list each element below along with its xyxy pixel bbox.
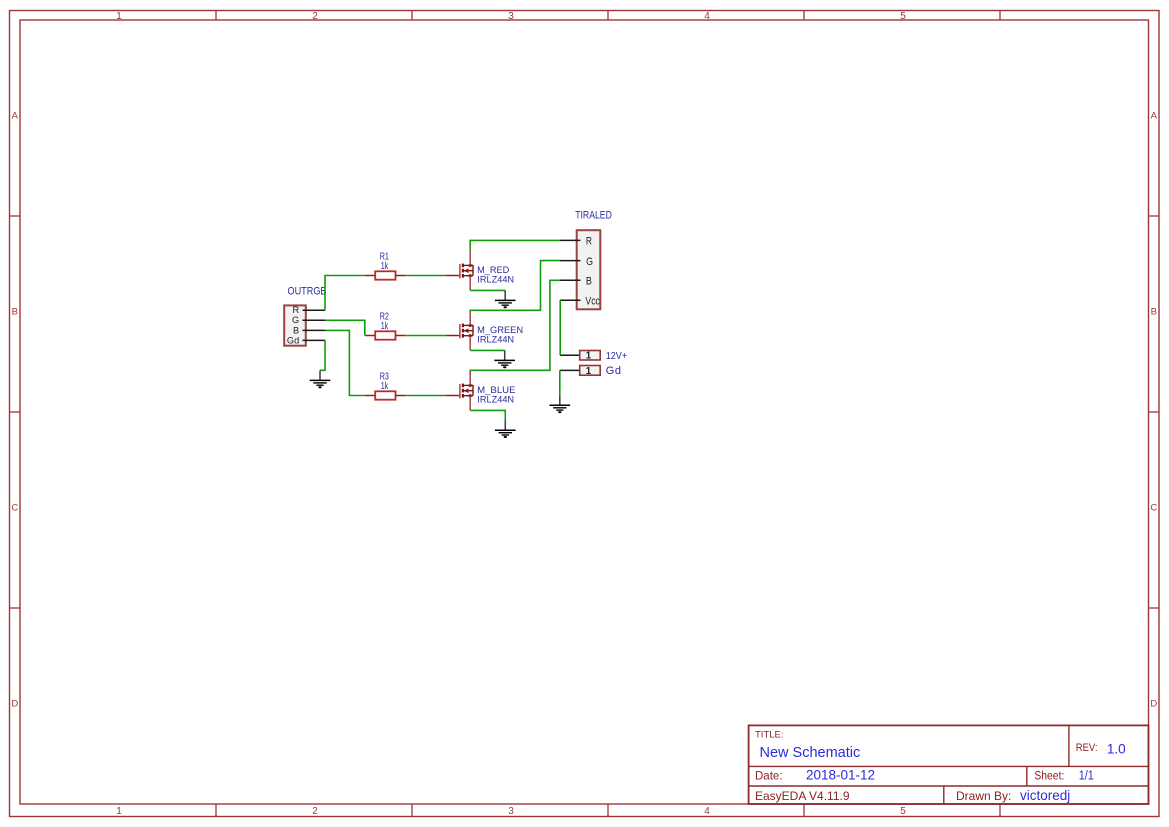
svg-text:1/1: 1/1	[1079, 767, 1094, 782]
ground M_GREEN	[494, 350, 515, 368]
wire R1 to M_RED gate	[405, 275, 445, 277]
transistor M_RED	[446, 250, 473, 290]
wire M_BLUE source to ground	[470, 410, 505, 420]
svg-text:OUTRGB: OUTRGB	[288, 286, 327, 298]
svg-text:TITLE:: TITLE:	[755, 730, 784, 741]
title block outline	[749, 725, 1149, 804]
svg-text:4: 4	[704, 806, 710, 817]
wire TIRALED.Vcc to 12V+ flag	[559, 300, 561, 355]
net flag 12V+ body	[580, 351, 601, 361]
resistor R2 labels	[380, 311, 389, 332]
ground M_BLUE	[495, 420, 516, 438]
transistor M_BLUE	[446, 370, 473, 410]
svg-text:A: A	[12, 111, 19, 122]
svg-text:1: 1	[116, 11, 122, 22]
svg-text:1.0: 1.0	[1107, 742, 1126, 757]
svg-text:victoredj: victoredj	[1020, 788, 1070, 803]
svg-text:3: 3	[508, 11, 514, 22]
frame column ticks bottom	[216, 804, 1000, 817]
svg-text:C: C	[1150, 503, 1157, 514]
svg-text:2018-01-12: 2018-01-12	[806, 767, 875, 782]
wire M_RED source to ground	[470, 289, 505, 291]
connector TIRALED pin Vcc	[560, 299, 581, 301]
transistor M_GREEN labels	[477, 325, 523, 345]
wire M_RED drain to TIRALED.R	[470, 240, 560, 250]
connector OUTRGB body	[284, 305, 306, 345]
svg-text:1: 1	[586, 351, 592, 362]
ground OUTRGB	[310, 370, 331, 388]
svg-text:1k: 1k	[381, 320, 389, 331]
connector TIRALED pin names	[585, 236, 600, 308]
ground Gd	[550, 395, 571, 413]
connector OUTRGB pin names	[287, 305, 300, 345]
frame row ticks right	[1149, 216, 1160, 608]
svg-text:G: G	[292, 315, 299, 325]
svg-text:1: 1	[116, 806, 122, 817]
connector OUTRGB pin Gd	[303, 339, 326, 341]
resistor R3 labels	[380, 371, 389, 392]
svg-text:EasyEDA V4.11.9: EasyEDA V4.11.9	[755, 789, 850, 803]
wire R2 to M_GREEN gate	[405, 335, 445, 337]
title block divider REV	[1068, 725, 1070, 766]
svg-text:5: 5	[900, 806, 906, 817]
svg-text:IRLZ44N: IRLZ44N	[477, 393, 514, 404]
svg-text:Sheet:: Sheet:	[1034, 770, 1064, 783]
wire M_GREEN source to ground	[470, 349, 505, 351]
wire OUTRGB.B to R3	[325, 330, 365, 395]
connector TIRALED pin R	[560, 239, 581, 241]
wire M_GREEN drain to TIRALED.G	[470, 261, 560, 311]
svg-text:REV:: REV:	[1076, 742, 1098, 754]
svg-text:3: 3	[508, 806, 514, 817]
wire OUTRGB.Gd to ground	[320, 340, 325, 370]
svg-text:G: G	[586, 256, 593, 268]
wire OUTRGB.R to R1	[325, 276, 365, 311]
svg-text:4: 4	[704, 11, 710, 22]
svg-text:B: B	[586, 276, 592, 288]
frame column numbers bottom	[116, 806, 906, 817]
net flag Gd body	[580, 366, 601, 376]
title block row line 1	[749, 765, 1149, 767]
svg-text:2: 2	[312, 11, 318, 22]
wire R3 to M_BLUE gate	[405, 395, 445, 397]
frame column ticks top	[216, 11, 1000, 21]
transistor M_BLUE labels	[477, 385, 515, 404]
transistor M_RED labels	[477, 264, 514, 285]
title block row line 2	[749, 785, 1149, 787]
svg-text:2: 2	[312, 806, 318, 817]
svg-text:B: B	[1151, 307, 1157, 318]
svg-text:Date:: Date:	[755, 770, 783, 782]
resistor R2	[365, 331, 405, 339]
svg-text:A: A	[1151, 111, 1158, 122]
svg-text:D: D	[1150, 699, 1157, 710]
svg-text:Drawn By:: Drawn By:	[956, 789, 1011, 803]
transistor M_GREEN	[446, 310, 473, 350]
svg-text:R: R	[586, 236, 592, 249]
net flag Gd pin	[560, 369, 580, 371]
svg-text:Vcc: Vcc	[585, 295, 600, 307]
svg-text:1k: 1k	[381, 380, 389, 391]
svg-text:R: R	[293, 305, 300, 315]
connector TIRALED pin G	[560, 260, 581, 262]
svg-text:1k: 1k	[381, 260, 389, 271]
frame row ticks left	[10, 216, 21, 608]
svg-text:D: D	[11, 699, 18, 710]
connector OUTRGB pin R	[303, 309, 326, 311]
frame row letters right	[1150, 111, 1157, 710]
svg-text:12V+: 12V+	[606, 350, 628, 362]
wire M_BLUE drain to TIRALED.B	[470, 280, 560, 370]
svg-text:1: 1	[586, 366, 592, 377]
net flag 12V+ pin	[560, 354, 580, 356]
connector OUTRGB pin G	[303, 319, 326, 321]
svg-text:IRLZ44N: IRLZ44N	[477, 333, 514, 344]
title block divider DrawnBy	[943, 786, 945, 805]
frame column numbers top	[116, 11, 906, 22]
connector TIRALED pin B	[560, 279, 581, 281]
frame row letters left	[11, 111, 18, 710]
svg-text:TIRALED: TIRALED	[575, 209, 612, 221]
svg-text:Gd: Gd	[606, 365, 622, 377]
svg-text:IRLZ44N: IRLZ44N	[477, 273, 514, 284]
wire Gd flag to ground	[559, 370, 561, 395]
title block divider Sheet	[1026, 766, 1028, 786]
svg-text:C: C	[11, 503, 18, 514]
svg-text:Gd: Gd	[287, 335, 299, 345]
wire OUTRGB.G to R2	[325, 320, 365, 335]
resistor R3	[365, 391, 405, 399]
resistor R1	[365, 271, 405, 279]
svg-text:B: B	[293, 325, 299, 335]
connector TIRALED body	[577, 230, 601, 309]
svg-text:New Schematic: New Schematic	[760, 745, 861, 761]
resistor R1 labels	[380, 251, 389, 272]
ground M_RED	[495, 290, 516, 308]
connector OUTRGB pin B	[303, 329, 326, 331]
svg-text:5: 5	[900, 11, 906, 22]
svg-text:B: B	[12, 307, 18, 318]
